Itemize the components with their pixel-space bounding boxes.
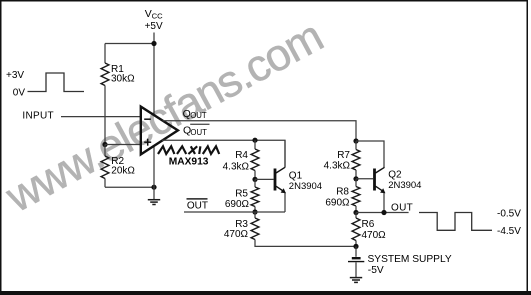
node ground junction: [151, 185, 156, 190]
svg-text:4.3kΩ: 4.3kΩ: [324, 161, 351, 172]
wire OUTbar (left): [184, 211, 285, 213]
svg-text:MAX913: MAX913: [169, 156, 209, 167]
node R4/R5/Q1-base junction: [252, 177, 257, 182]
wire QbarOUT: [162, 140, 285, 167]
wire R2 bottom to ground: [105, 186, 154, 188]
wire VCC vertical: [153, 33, 155, 115]
node VCC junction: [151, 41, 156, 46]
resistor R1: [104, 44, 106, 64]
svg-text:OUT: OUT: [391, 202, 413, 213]
wire INPUT: [61, 116, 141, 118]
svg-text:R4: R4: [235, 150, 248, 161]
ground under comparator: [148, 200, 160, 205]
svg-text:OUT: OUT: [187, 201, 208, 212]
input waveform: [28, 73, 85, 92]
resistor R2: [104, 145, 106, 157]
node Q2 emitter/OUT junction: [381, 210, 386, 215]
node R8/R6/OUT junction: [353, 210, 358, 215]
svg-text:-0.5V: -0.5V: [497, 208, 521, 219]
node R7/R8/Q2-base junction: [353, 176, 358, 181]
MAXIM logo: [158, 146, 219, 154]
node QOUT/R7 junction: [353, 138, 358, 143]
svg-text:690Ω: 690Ω: [325, 198, 350, 209]
resistor R6: [355, 213, 357, 219]
svg-text:470Ω: 470Ω: [362, 230, 387, 241]
node R5/R3/OUT junction: [252, 209, 257, 214]
svg-text:4.3kΩ: 4.3kΩ: [223, 162, 250, 173]
transistor Q1: [274, 169, 277, 191]
wire OUT (right): [356, 212, 409, 214]
svg-text:R6: R6: [362, 219, 375, 230]
svg-text:0V: 0V: [13, 88, 26, 99]
svg-text:R8: R8: [336, 187, 349, 198]
svg-text:SYSTEM SUPPLY: SYSTEM SUPPLY: [368, 254, 452, 265]
svg-text:Q1: Q1: [289, 170, 303, 181]
wire to Q2 collector: [356, 141, 384, 167]
wire plus input: [105, 144, 141, 146]
svg-text:R5: R5: [235, 189, 248, 200]
svg-text:R7: R7: [337, 150, 350, 161]
svg-text:2N3904: 2N3904: [388, 180, 421, 191]
ground under battery: [350, 278, 362, 283]
resistor R3: [254, 212, 256, 218]
node QbarOUT/R4 junction: [252, 138, 257, 143]
svg-text:690Ω: 690Ω: [225, 199, 250, 210]
transistor Q2: [373, 169, 376, 191]
op-amp U1 comparator MAX913: [141, 107, 178, 155]
resistor R5: [254, 179, 256, 187]
svg-text:OUT: OUT: [190, 111, 207, 120]
svg-text:INPUT: INPUT: [22, 110, 54, 121]
svg-text:30kΩ: 30kΩ: [111, 74, 135, 85]
svg-text:CC: CC: [152, 12, 163, 21]
node system supply junction: [353, 244, 358, 249]
resistor R7: [355, 141, 357, 150]
resistor R8: [355, 179, 357, 187]
svg-text:+3V: +3V: [6, 70, 24, 81]
wire comparator gnd stem: [153, 146, 155, 200]
resistor R4: [254, 140, 256, 149]
node R1/R2/plus-input junction: [102, 142, 107, 147]
wire VCC to R1: [105, 43, 154, 45]
svg-text:20kΩ: 20kΩ: [111, 166, 135, 177]
svg-text:+5V: +5V: [145, 21, 163, 32]
svg-text:-4.5V: -4.5V: [497, 226, 521, 237]
svg-text:OUT: OUT: [190, 128, 207, 137]
svg-text:2N3904: 2N3904: [289, 181, 322, 192]
output waveform: [419, 213, 492, 231]
svg-text:-5V: -5V: [368, 265, 384, 276]
wire QOUT: [163, 121, 357, 141]
battery system supply -5V: [355, 246, 357, 256]
svg-text:470Ω: 470Ω: [224, 229, 249, 240]
